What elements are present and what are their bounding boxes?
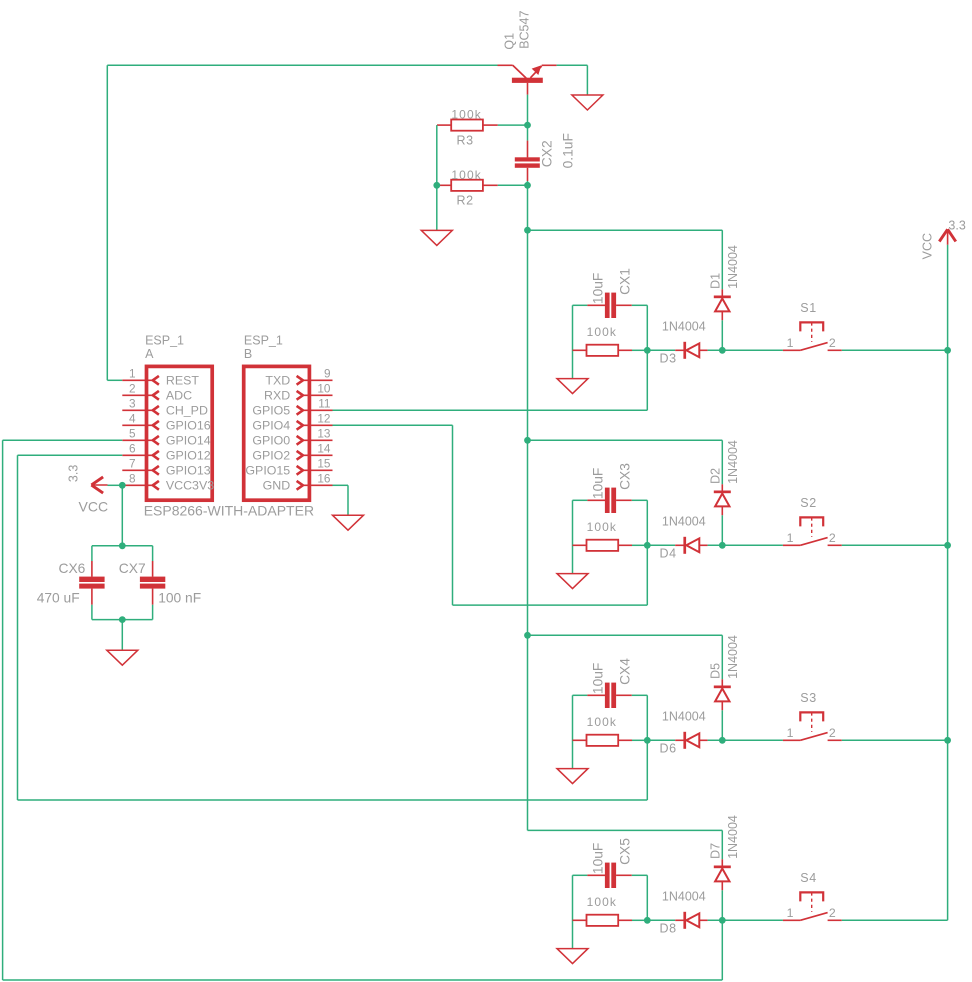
svg-text:D7: D7 — [709, 843, 723, 859]
svg-text:D5: D5 — [709, 663, 723, 679]
pin 9 TXD — [297, 376, 333, 385]
pin 14 GPIO2 — [297, 451, 333, 460]
wire: CX3 left stub — [573, 499, 588, 501]
wire: junction to D4 — [647, 544, 675, 546]
capacitor CX1 10uF — [587, 293, 631, 318]
wire: S2 to VCC rail — [842, 544, 948, 546]
svg-text:GPIO13: GPIO13 — [166, 464, 211, 478]
resistor 100k block 2 — [587, 540, 619, 551]
svg-text:S4: S4 — [800, 871, 817, 885]
junction rail branch 1 — [524, 227, 531, 234]
svg-text:1N4004: 1N4004 — [662, 515, 706, 529]
wire: block 1 leg up — [646, 350, 648, 410]
junction resistor/cap block 3 — [644, 737, 651, 744]
supply symbol VCC 3.3 (right, pointing up) — [939, 229, 956, 245]
capacitor CX7 100nF — [140, 561, 165, 605]
capacitor CX4 10uF — [587, 683, 631, 708]
wire: D2 bottom leg — [721, 515, 723, 545]
diode D2 (vertical, cathode up) — [714, 484, 731, 515]
wire: block 2 left leg — [572, 500, 574, 573]
svg-text:RXD: RXD — [264, 389, 290, 403]
svg-text:3.3: 3.3 — [66, 465, 80, 482]
svg-text:BC547: BC547 — [518, 11, 532, 49]
wire: CX4 left stub — [573, 694, 588, 696]
wire: emitter to ground — [557, 64, 588, 66]
junction VCC rail block 3 — [944, 737, 951, 744]
capacitor CX3 10uF — [587, 488, 631, 513]
wire: GPIO14 bottom run — [3, 979, 723, 981]
wire: VCC drop to caps — [121, 485, 123, 546]
svg-text:1N4004: 1N4004 — [662, 710, 706, 724]
wire: junction to D6 — [647, 739, 675, 741]
svg-text:D4: D4 — [660, 547, 677, 561]
wire: S1 to VCC rail — [842, 349, 948, 351]
svg-text:10uF: 10uF — [590, 273, 605, 304]
svg-text:S3: S3 — [800, 691, 817, 705]
junction base/R3 — [524, 122, 531, 129]
pin 12 GPIO4 — [297, 421, 333, 430]
wire: R2 ground drop — [436, 185, 438, 230]
svg-text:GPIO2: GPIO2 — [252, 449, 290, 463]
svg-text:GND: GND — [263, 479, 291, 493]
svg-text:100k: 100k — [587, 325, 617, 339]
switch S2 — [783, 517, 842, 545]
svg-text:2: 2 — [829, 336, 836, 350]
svg-text:GPIO4: GPIO4 — [252, 419, 290, 433]
svg-text:4: 4 — [129, 412, 136, 426]
junction diode node block 4 — [719, 917, 726, 924]
svg-text:CX5: CX5 — [618, 838, 633, 865]
wire: emitter ground drop — [586, 65, 588, 95]
wire: block 4 left leg — [572, 875, 574, 948]
ground (emitter) — [572, 95, 603, 110]
svg-text:1N4004: 1N4004 — [662, 320, 706, 334]
svg-text:Q1: Q1 — [503, 33, 517, 50]
svg-text:B: B — [244, 347, 252, 361]
junction rail branch 2 — [524, 437, 531, 444]
wire: GPIO4 drop — [452, 425, 454, 605]
resistor R3 leads — [437, 124, 451, 126]
junction VCC rail block 2 — [944, 542, 951, 549]
svg-text:10: 10 — [317, 382, 331, 396]
wire: VCC rail right — [947, 245, 949, 921]
svg-text:CX1: CX1 — [618, 268, 633, 295]
resistor 100k block 2 leads — [573, 544, 587, 546]
wire: S3 to VCC rail — [842, 739, 948, 741]
junction R3/R2/ground — [433, 182, 440, 189]
pin 7 GPIO13 — [122, 466, 159, 475]
junction resistor/cap block 2 — [644, 542, 651, 549]
svg-text:S2: S2 — [800, 496, 817, 510]
supply symbol VCC 3.3 (left, pointing left) — [91, 477, 107, 493]
wire: D8 to S4 — [708, 919, 783, 921]
wire: GND pin to ground — [333, 484, 349, 486]
svg-text:CX7: CX7 — [119, 561, 146, 576]
ground (caps) — [107, 650, 138, 665]
resistor 100k block 4 — [587, 915, 619, 926]
svg-text:GPIO12: GPIO12 — [166, 449, 211, 463]
junction caps top — [119, 542, 126, 549]
wire: block 3 left leg — [572, 695, 574, 768]
wire: CX5 left stub — [573, 874, 588, 876]
ground (ESP GND) — [333, 515, 364, 530]
svg-text:2: 2 — [129, 382, 136, 396]
pin 4 GPIO16 — [122, 421, 159, 430]
svg-text:D2: D2 — [709, 468, 723, 484]
svg-text:GPIO14: GPIO14 — [166, 434, 211, 448]
wire: CX1 left stub — [573, 304, 588, 306]
wire: CX6 bottom leg — [91, 605, 93, 620]
resistor 100k block 3 leads — [573, 739, 587, 741]
svg-text:ESP_1: ESP_1 — [244, 334, 283, 348]
diode D4 (cathode left) — [675, 537, 707, 554]
svg-text:14: 14 — [317, 442, 331, 456]
wire: GPIO12 bottom run — [18, 799, 648, 801]
wire: D7 bottom leg — [721, 890, 723, 920]
svg-text:R3: R3 — [457, 133, 474, 147]
diode D6 (cathode left) — [675, 732, 707, 749]
wire: stub to pin 1 REST — [107, 379, 122, 381]
wire: D1 top leg — [721, 230, 723, 289]
wire: D1 bottom leg — [721, 320, 723, 350]
junction diode node block 2 — [719, 542, 726, 549]
wire: D6 to S3 — [708, 739, 783, 741]
svg-text:3: 3 — [129, 397, 136, 411]
resistor R2 100k — [451, 180, 483, 191]
svg-text:3.3: 3.3 — [948, 219, 965, 233]
diode D8 (cathode left) — [675, 912, 707, 929]
svg-text:1: 1 — [787, 336, 794, 350]
svg-text:100k: 100k — [587, 895, 617, 909]
wire: S4 to VCC rail — [842, 919, 948, 921]
diode D1 (vertical, cathode up) — [714, 289, 731, 320]
wire: CX7 top leg — [152, 546, 154, 561]
svg-text:11: 11 — [318, 397, 330, 411]
wire: caps bottom rail — [92, 619, 153, 621]
svg-text:2: 2 — [829, 906, 836, 920]
wire: D5 top leg — [721, 635, 723, 679]
wire: base down to R3 node — [527, 95, 529, 141]
wire: CX1 right stub — [632, 304, 648, 306]
svg-text:CX3: CX3 — [618, 463, 633, 490]
resistor 100k block 3 — [587, 735, 619, 746]
svg-text:15: 15 — [317, 457, 331, 471]
wire: resistor to junction block 2 — [632, 544, 647, 546]
svg-text:1: 1 — [129, 367, 136, 381]
svg-text:GPIO15: GPIO15 — [245, 464, 290, 478]
svg-text:100k: 100k — [587, 715, 617, 729]
svg-text:1N4004: 1N4004 — [726, 815, 740, 859]
resistor R2 leads — [437, 184, 451, 186]
svg-text:S1: S1 — [800, 301, 817, 315]
svg-text:1: 1 — [787, 906, 794, 920]
transistor Q1 BC547 (NPN) — [498, 65, 557, 94]
wire: D4 to S2 — [708, 544, 783, 546]
wire: block 3 right leg — [646, 695, 648, 740]
svg-text:5: 5 — [129, 427, 136, 441]
wire: block 4 leg up — [721, 920, 723, 980]
svg-text:1N4004: 1N4004 — [726, 245, 740, 289]
wire: R3 to base rail — [498, 124, 528, 126]
junction resistor/cap block 4 — [644, 917, 651, 924]
capacitor CX2 0.1uF — [515, 141, 540, 181]
ground (block 3) — [557, 769, 588, 784]
wire: D5 bottom leg — [721, 710, 723, 740]
wire: resistor to junction block 3 — [632, 739, 647, 741]
svg-text:CH_PD: CH_PD — [166, 404, 208, 418]
wire: block 1 left leg — [572, 305, 574, 378]
wire: VCC to pin 8 — [108, 484, 123, 486]
svg-text:10uF: 10uF — [590, 468, 605, 499]
pin 10 RXD — [297, 391, 333, 400]
wire: GPIO4 bottom run — [453, 604, 648, 606]
IC U1 ESP8266-WITH-ADAPTER gate B box — [244, 366, 310, 500]
pin 1 REST — [122, 376, 159, 385]
switch S4 — [783, 892, 842, 920]
svg-text:D6: D6 — [660, 742, 677, 756]
svg-text:7: 7 — [129, 457, 136, 471]
wire: GPIO14 left drop — [2, 440, 4, 980]
diode D5 (vertical, cathode up) — [714, 679, 731, 710]
junction diode node block 1 — [719, 347, 726, 354]
resistor 100k block 1 leads — [573, 349, 587, 351]
svg-text:GPIO5: GPIO5 — [252, 404, 290, 418]
wire: resistor to junction block 4 — [632, 919, 647, 921]
svg-text:CX6: CX6 — [59, 561, 86, 576]
wire: branch to D2 — [528, 439, 723, 441]
pin 8 VCC3V3 — [122, 481, 159, 490]
junction R2/CX2 node — [524, 182, 531, 189]
svg-text:6: 6 — [129, 442, 136, 456]
wire: CX3 right stub — [632, 499, 648, 501]
wire: branch to D7 — [528, 829, 723, 831]
switch S3 — [783, 712, 842, 740]
IC U1 ESP8266-WITH-ADAPTER gate A box — [147, 366, 213, 500]
wire: R2 to rail — [498, 184, 528, 186]
pin 13 GPIO0 — [297, 436, 333, 445]
capacitor CX5 10uF — [587, 863, 631, 888]
svg-text:VCC: VCC — [921, 233, 935, 259]
pin 2 ADC — [122, 391, 159, 400]
wire: GPIO12 left drop — [17, 455, 19, 800]
svg-text:1: 1 — [787, 726, 794, 740]
diode D3 (cathode left) — [675, 342, 707, 359]
svg-text:ADC: ADC — [166, 389, 192, 403]
svg-text:10uF: 10uF — [590, 663, 605, 694]
svg-text:R2: R2 — [457, 193, 474, 207]
svg-text:2: 2 — [829, 726, 836, 740]
svg-text:CX2: CX2 — [539, 140, 554, 167]
svg-text:1N4004: 1N4004 — [726, 440, 740, 484]
svg-text:16: 16 — [317, 472, 331, 486]
junction diode node block 3 — [719, 737, 726, 744]
svg-text:470 uF: 470 uF — [37, 591, 80, 606]
svg-text:ESP8266-WITH-ADAPTER: ESP8266-WITH-ADAPTER — [144, 503, 314, 519]
wire: block 3 leg up — [646, 740, 648, 800]
junction pin8/VCC — [119, 482, 126, 489]
svg-text:A: A — [145, 347, 154, 361]
svg-text:D3: D3 — [660, 352, 677, 366]
wire: block 2 leg up — [646, 545, 648, 605]
wire: D7 top leg — [721, 830, 723, 859]
resistor 100k block 1 — [587, 345, 619, 356]
svg-text:D1: D1 — [709, 273, 723, 289]
svg-text:100k: 100k — [451, 168, 481, 182]
diode D7 (vertical, cathode up) — [714, 859, 731, 890]
ground (block 4) — [557, 949, 588, 964]
pin 11 GPIO5 — [297, 406, 333, 415]
svg-text:100k: 100k — [587, 520, 617, 534]
svg-text:VCC: VCC — [79, 499, 109, 515]
svg-text:D8: D8 — [660, 922, 677, 936]
wire: junction to D8 — [647, 919, 675, 921]
svg-text:10uF: 10uF — [590, 843, 605, 874]
wire: GPIO4 run — [333, 424, 453, 426]
svg-text:9: 9 — [324, 367, 331, 381]
svg-text:12: 12 — [317, 412, 330, 426]
wire: CX5 right stub — [632, 874, 648, 876]
svg-text:CX4: CX4 — [618, 658, 633, 685]
svg-text:2: 2 — [829, 531, 836, 545]
svg-text:100 nF: 100 nF — [158, 591, 201, 606]
pin 3 CH_PD — [122, 406, 159, 415]
switch S1 — [783, 322, 842, 350]
svg-text:TXD: TXD — [265, 374, 290, 388]
junction caps bottom — [119, 616, 126, 623]
junction resistor/cap block 1 — [644, 347, 651, 354]
svg-text:ESP_1: ESP_1 — [145, 334, 184, 348]
svg-text:1N4004: 1N4004 — [726, 635, 740, 679]
wire: caps ground stub — [121, 620, 123, 651]
svg-text:13: 13 — [317, 427, 331, 441]
wire: GPIO14 run — [3, 439, 123, 441]
svg-text:100k: 100k — [451, 108, 481, 122]
svg-text:0.1uF: 0.1uF — [561, 133, 576, 168]
wire: R3 left drop to R2 — [436, 125, 438, 185]
svg-text:GPIO16: GPIO16 — [166, 419, 211, 433]
wire: collector net left drop to REST — [106, 65, 108, 380]
svg-text:VCC3V3: VCC3V3 — [166, 479, 214, 493]
junction VCC rail block 1 — [944, 347, 951, 354]
svg-text:REST: REST — [166, 374, 199, 388]
resistor R3 100k — [451, 120, 483, 131]
wire: D2 top leg — [721, 440, 723, 484]
pin 5 GPIO14 — [122, 436, 159, 445]
wire: block 4 right leg — [646, 875, 648, 920]
wire: D3 to S1 — [708, 349, 783, 351]
wire: GPIO5 to block 1 — [333, 409, 648, 411]
wire: CX6 top leg — [91, 546, 93, 561]
ground (block 1) — [557, 379, 588, 394]
wire: CX4 right stub — [632, 694, 648, 696]
wire: branch to D1 — [528, 229, 723, 231]
resistor 100k block 4 leads — [573, 919, 587, 921]
svg-text:GPIO0: GPIO0 — [252, 434, 290, 448]
wire: block 2 right leg — [646, 500, 648, 545]
pin 6 GPIO12 — [122, 451, 159, 460]
wire: CX7 bottom leg — [152, 605, 154, 620]
svg-text:8: 8 — [129, 472, 136, 486]
pin 16 GND — [297, 481, 333, 490]
wire: branch to D5 — [528, 634, 723, 636]
capacitor CX6 470uF — [79, 561, 104, 605]
svg-text:1N4004: 1N4004 — [662, 890, 706, 904]
ground (block 2) — [557, 574, 588, 589]
pin 15 GPIO15 — [297, 466, 333, 475]
wire: block 1 right leg — [646, 305, 648, 350]
wire: resistor to junction block 1 — [632, 349, 647, 351]
wire: collector net top run — [107, 64, 497, 66]
wire: junction to D3 — [647, 349, 675, 351]
wire: GND drop — [347, 485, 349, 515]
wire: caps top rail — [92, 545, 153, 547]
wire: GPIO12 run — [18, 454, 123, 456]
svg-text:1: 1 — [787, 531, 794, 545]
wire: centre distribution rail — [527, 181, 529, 830]
junction rail branch 3 — [524, 632, 531, 639]
ground (R2) — [421, 230, 452, 245]
